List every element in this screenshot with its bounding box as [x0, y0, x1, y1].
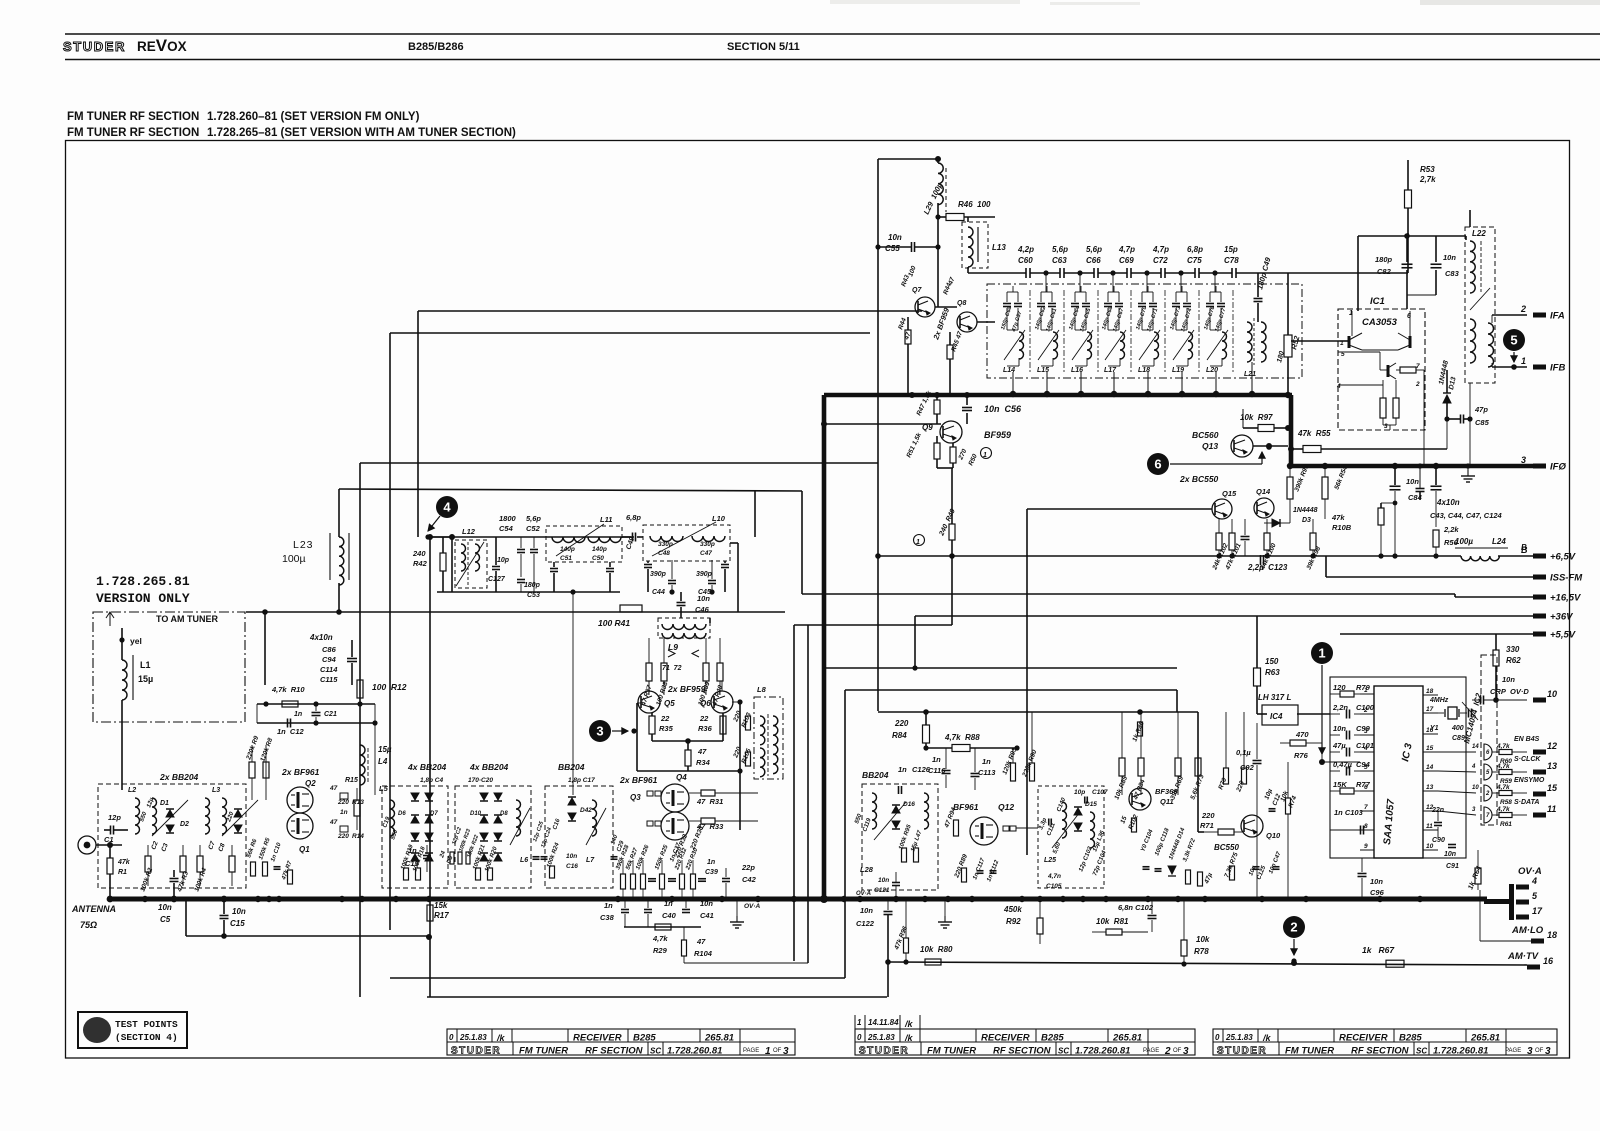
- svg-text:47k: 47k: [1331, 513, 1345, 522]
- svg-text:550: 550: [390, 829, 399, 841]
- svg-text:Q13: Q13: [1202, 441, 1218, 451]
- svg-text:C43, C44, C47, C124: C43, C44, C47, C124: [1430, 511, 1503, 520]
- svg-text:D13: D13: [1448, 376, 1458, 390]
- svg-text:C72: C72: [1153, 256, 1168, 265]
- svg-text:R17: R17: [434, 911, 449, 920]
- svg-text:5,60: 5,60: [1052, 841, 1062, 855]
- svg-text:470: 470: [1295, 730, 1309, 739]
- svg-text:L13: L13: [992, 243, 1006, 252]
- svg-text:100: 100: [907, 265, 917, 278]
- svg-text:2x BC550: 2x BC550: [1179, 474, 1219, 484]
- svg-text:C49: C49: [625, 536, 636, 551]
- svg-text:3,3p: 3,3p: [1038, 817, 1048, 831]
- svg-text:330p: 330p: [700, 541, 715, 548]
- svg-text:15µ: 15µ: [138, 674, 153, 684]
- svg-text:R58: R58: [1500, 799, 1512, 806]
- svg-text:C127: C127: [488, 576, 506, 583]
- svg-text:FM TUNER: FM TUNER: [927, 1046, 976, 1057]
- svg-text:TEST POINTS: TEST POINTS: [115, 1019, 178, 1030]
- svg-text:AM·LO: AM·LO: [1511, 925, 1544, 936]
- svg-text:R63: R63: [1265, 668, 1280, 677]
- svg-text:R84: R84: [892, 731, 907, 740]
- svg-text:140p C65: 140p C65: [1079, 307, 1092, 333]
- svg-text:10k: 10k: [1279, 790, 1290, 803]
- svg-text:15p: 15p: [1224, 245, 1238, 254]
- svg-text:1n: 1n: [707, 859, 715, 866]
- svg-text:47 R94: 47 R94: [943, 806, 958, 829]
- svg-text:25.1.83: 25.1.83: [459, 1033, 487, 1042]
- svg-text:L21: L21: [1244, 371, 1256, 378]
- svg-text:D1: D1: [160, 800, 169, 807]
- svg-text:R34: R34: [696, 758, 711, 767]
- svg-text:L4: L4: [378, 757, 388, 766]
- svg-text:C85: C85: [1475, 418, 1490, 427]
- svg-text:C48: C48: [658, 550, 670, 557]
- svg-text:C121: C121: [874, 887, 890, 894]
- svg-text:C83: C83: [1445, 269, 1460, 278]
- svg-text:C63: C63: [1052, 256, 1067, 265]
- svg-text:R52: R52: [1289, 334, 1301, 350]
- svg-text:10k R85: 10k R85: [1113, 775, 1129, 801]
- svg-text:C1: C1: [104, 835, 114, 844]
- svg-text:/k: /k: [904, 1033, 914, 1043]
- svg-text:OV·A: OV·A: [856, 891, 871, 897]
- svg-text:18: 18: [1426, 688, 1434, 695]
- svg-text:1k R67: 1k R67: [1362, 945, 1395, 955]
- svg-text:140p: 140p: [592, 546, 607, 553]
- svg-text:2: 2: [1485, 791, 1490, 797]
- svg-text:SC: SC: [1058, 1047, 1069, 1056]
- svg-text:1N4448: 1N4448: [1293, 507, 1318, 514]
- svg-text:5,6p: 5,6p: [1052, 245, 1068, 254]
- svg-text:4,7k R88: 4,7k R88: [944, 733, 980, 742]
- svg-text:0: 0: [1215, 1033, 1220, 1042]
- svg-text:+36V: +36V: [1550, 612, 1573, 623]
- svg-text:L3: L3: [212, 787, 220, 794]
- svg-text:D16: D16: [903, 801, 915, 808]
- svg-text:C16: C16: [552, 818, 562, 831]
- svg-text:Q2: Q2: [305, 779, 316, 788]
- svg-text:R62: R62: [1506, 656, 1521, 665]
- svg-text:220: 220: [1235, 780, 1246, 794]
- svg-text:D7: D7: [430, 811, 438, 817]
- svg-text:1.728.260.81: 1.728.260.81: [667, 1046, 722, 1057]
- svg-text:14: 14: [1426, 764, 1434, 771]
- svg-text:2: 2: [1415, 381, 1420, 388]
- svg-text:15µ: 15µ: [378, 745, 392, 754]
- svg-text:ISS-FM: ISS-FM: [1550, 573, 1583, 584]
- svg-text:140p C71: 140p C71: [1146, 308, 1159, 333]
- svg-text:8: 8: [1364, 823, 1368, 830]
- svg-text:3: 3: [1183, 1046, 1189, 1057]
- svg-text:Q4: Q4: [676, 773, 687, 782]
- svg-text:10n: 10n: [232, 907, 246, 916]
- svg-text:R14: R14: [352, 833, 364, 840]
- svg-text:R46 100: R46 100: [958, 200, 991, 209]
- svg-text:0: 0: [857, 1033, 862, 1042]
- svg-text:7: 7: [1486, 813, 1490, 819]
- svg-text:IFB: IFB: [1550, 363, 1565, 374]
- svg-text:Q8: Q8: [957, 300, 966, 307]
- svg-text:22p: 22p: [741, 863, 755, 872]
- svg-text:C82: C82: [1377, 267, 1392, 276]
- svg-text:C115: C115: [320, 675, 338, 684]
- svg-text:2x BB204: 2x BB204: [159, 772, 199, 782]
- svg-text:150: 150: [1265, 657, 1279, 666]
- svg-text:C53: C53: [527, 592, 540, 599]
- svg-text:10k R97: 10k R97: [1240, 413, 1273, 422]
- svg-text:1.728.260.81: 1.728.260.81: [1433, 1046, 1488, 1057]
- svg-text:120k R8: 120k R8: [259, 737, 274, 763]
- svg-text:1n: 1n: [604, 901, 613, 910]
- svg-text:Q10: Q10: [1266, 831, 1281, 840]
- svg-text:4MHz: 4MHz: [1429, 697, 1449, 704]
- svg-text:(SECTION 4): (SECTION 4): [115, 1032, 178, 1043]
- svg-text:10k R80: 10k R80: [920, 945, 953, 954]
- svg-text:Q7: Q7: [912, 287, 922, 294]
- svg-text:6: 6: [1486, 750, 1490, 756]
- svg-text:16: 16: [1543, 956, 1554, 966]
- svg-text:5: 5: [1510, 333, 1517, 348]
- svg-text:100µ C118: 100µ C118: [1154, 827, 1171, 857]
- svg-text:17: 17: [1426, 706, 1434, 713]
- svg-text:4,7n: 4,7n: [1047, 873, 1061, 880]
- svg-text:1,8p C17: 1,8p C17: [568, 777, 595, 784]
- svg-text:L12: L12: [462, 527, 476, 536]
- svg-text:100 R12: 100 R12: [372, 682, 407, 692]
- svg-text:R44: R44: [897, 317, 908, 331]
- svg-text:47µ: 47µ: [1203, 872, 1214, 886]
- svg-text:R35: R35: [659, 724, 674, 733]
- svg-text:VERSION ONLY: VERSION ONLY: [96, 591, 190, 606]
- svg-text:4: 4: [443, 500, 451, 515]
- svg-text:140p C70: 140p C70: [1135, 306, 1148, 331]
- svg-text:1: 1: [765, 1046, 771, 1057]
- svg-text:CRP OV·D: CRP OV·D: [1490, 687, 1529, 696]
- svg-text:STUDER: STUDER: [451, 1046, 501, 1057]
- svg-text:R45 47: R45 47: [950, 330, 964, 352]
- svg-text:22: 22: [699, 714, 709, 723]
- svg-text:R36: R36: [698, 724, 713, 733]
- svg-text:L17: L17: [1104, 367, 1117, 374]
- svg-text:10n: 10n: [1406, 477, 1419, 486]
- svg-text:1n C117: 1n C117: [972, 857, 986, 881]
- svg-text:47 R31: 47 R31: [696, 797, 723, 806]
- svg-text:B: B: [1521, 543, 1527, 552]
- svg-text:10µ: 10µ: [1263, 788, 1274, 801]
- svg-text:Y1: Y1: [1430, 725, 1439, 732]
- svg-text:11: 11: [1547, 804, 1556, 814]
- svg-text:C2: C2: [150, 840, 160, 851]
- svg-text:IFØ: IFØ: [1550, 462, 1566, 473]
- svg-text:C105: C105: [1046, 883, 1062, 890]
- svg-text:14.11.84: 14.11.84: [868, 1018, 899, 1027]
- svg-text:10n: 10n: [1443, 253, 1456, 262]
- svg-text:10k: 10k: [1196, 935, 1210, 944]
- svg-text:5,6p: 5,6p: [1086, 245, 1102, 254]
- svg-text:SC: SC: [1416, 1047, 1427, 1056]
- svg-text:10n: 10n: [1333, 724, 1346, 733]
- svg-text:R1: R1: [118, 869, 127, 876]
- svg-text:C41: C41: [700, 911, 714, 920]
- svg-text:R76: R76: [1294, 751, 1309, 760]
- svg-text:47µ: 47µ: [1332, 741, 1346, 750]
- svg-text:Q6: Q6: [700, 699, 711, 708]
- svg-text:140p C77: 140p C77: [1214, 307, 1227, 333]
- svg-text:3: 3: [1472, 807, 1476, 813]
- svg-text:220: 220: [337, 799, 349, 806]
- svg-text:47k R55: 47k R55: [1297, 429, 1331, 438]
- svg-text:17: 17: [1532, 906, 1543, 916]
- svg-text:C96: C96: [1370, 888, 1385, 897]
- svg-text:RECEIVER: RECEIVER: [981, 1033, 1030, 1044]
- svg-text:R102: R102: [1127, 813, 1139, 830]
- svg-text:OF: OF: [1173, 1048, 1182, 1054]
- svg-text:400: 400: [1451, 725, 1464, 732]
- svg-text:SAA 1057: SAA 1057: [1382, 798, 1397, 845]
- svg-text:R79: R79: [1356, 683, 1371, 692]
- svg-text:13: 13: [1547, 761, 1557, 771]
- svg-text:11: 11: [1426, 823, 1433, 830]
- svg-text:L2: L2: [128, 787, 136, 794]
- svg-text:47p: 47p: [1474, 405, 1488, 414]
- svg-text:2: 2: [1164, 1046, 1171, 1057]
- svg-text:6,8p: 6,8p: [1187, 245, 1203, 254]
- svg-text:C113: C113: [978, 768, 996, 777]
- svg-text:2,7k: 2,7k: [1419, 175, 1436, 184]
- svg-text:13: 13: [1426, 784, 1434, 791]
- svg-text:10: 10: [1472, 785, 1479, 791]
- svg-text:SECTION 5/11: SECTION 5/11: [727, 41, 800, 53]
- svg-text:L6: L6: [520, 857, 528, 864]
- svg-text:1: 1: [916, 539, 920, 546]
- svg-text:R77: R77: [1356, 780, 1371, 789]
- svg-text:9: 9: [1364, 843, 1368, 850]
- svg-text:C92: C92: [1240, 763, 1255, 772]
- svg-text:10n: 10n: [860, 906, 873, 915]
- svg-text:140p: 140p: [560, 546, 575, 553]
- svg-text:B285/B286: B285/B286: [408, 41, 464, 53]
- svg-text:C54: C54: [499, 524, 514, 533]
- svg-text:RF SECTION: RF SECTION: [1351, 1046, 1410, 1057]
- svg-text:15: 15: [1119, 815, 1128, 825]
- svg-text:265.81: 265.81: [1470, 1033, 1500, 1044]
- svg-text:R61: R61: [1500, 821, 1512, 828]
- svg-text:550: 550: [139, 811, 148, 823]
- svg-text:FM TUNER RF SECTION: FM TUNER RF SECTION: [67, 127, 199, 139]
- svg-text:TO AM TUNER: TO AM TUNER: [156, 614, 218, 624]
- svg-text:47: 47: [329, 819, 338, 826]
- svg-text:265.81: 265.81: [704, 1033, 734, 1044]
- svg-text:1: 1: [983, 452, 987, 459]
- svg-text:6,8n C102: 6,8n C102: [1118, 903, 1154, 912]
- svg-text:R29: R29: [653, 946, 668, 955]
- svg-text:BB204: BB204: [862, 770, 889, 780]
- svg-text:2: 2: [1290, 920, 1297, 935]
- svg-text:C3: C3: [160, 842, 170, 853]
- svg-text:/k: /k: [904, 1019, 914, 1029]
- svg-text:RECEIVER: RECEIVER: [1339, 1033, 1388, 1044]
- svg-text:BC560: BC560: [1192, 430, 1219, 440]
- svg-text:C101: C101: [1356, 741, 1374, 750]
- svg-text:10: 10: [1426, 843, 1434, 850]
- svg-text:4,7p: 4,7p: [1118, 245, 1135, 254]
- svg-text:D15: D15: [1085, 801, 1097, 808]
- svg-text:56k R54: 56k R54: [1333, 465, 1349, 491]
- svg-text:RF SECTION: RF SECTION: [585, 1046, 644, 1057]
- svg-text:10: 10: [1547, 689, 1557, 699]
- svg-text:1.728.265–81 (SET VERSION WITH: 1.728.265–81 (SET VERSION WITH AM TUNER …: [207, 127, 516, 139]
- svg-text:4: 4: [1471, 764, 1476, 770]
- svg-text:C51: C51: [560, 555, 572, 562]
- svg-text:3,3k R72: 3,3k R72: [1182, 837, 1197, 862]
- svg-text:BF366: BF366: [1155, 787, 1178, 796]
- svg-text:75Ω: 75Ω: [80, 920, 97, 930]
- svg-text:C94: C94: [1356, 760, 1371, 769]
- svg-text:47: 47: [329, 785, 338, 792]
- svg-text:C7: C7: [207, 840, 217, 851]
- svg-text:CA3053: CA3053: [1362, 317, 1398, 328]
- svg-text:220: 220: [1201, 811, 1215, 820]
- svg-text:265.81: 265.81: [1112, 1033, 1142, 1044]
- svg-text:1n C10: 1n C10: [270, 842, 283, 863]
- svg-text:220: 220: [337, 833, 349, 840]
- svg-text:L10: L10: [712, 514, 726, 523]
- svg-text:RECEIVER: RECEIVER: [573, 1033, 622, 1044]
- svg-text:C39: C39: [705, 869, 718, 876]
- svg-text:10p: 10p: [497, 557, 510, 564]
- svg-text:C114: C114: [320, 665, 338, 674]
- svg-text:1.728.260.81: 1.728.260.81: [1075, 1046, 1130, 1057]
- svg-text:D10: D10: [470, 811, 482, 817]
- svg-text:2x BF961: 2x BF961: [619, 775, 658, 785]
- svg-text:220: 220: [894, 719, 909, 728]
- svg-text:C44: C44: [652, 589, 665, 596]
- svg-text:22n: 22n: [1431, 807, 1444, 814]
- svg-text:FM TUNER: FM TUNER: [1285, 1046, 1334, 1057]
- svg-text:BB204: BB204: [558, 762, 585, 772]
- svg-text:C5: C5: [160, 915, 171, 924]
- svg-text:IC1: IC1: [1370, 296, 1385, 307]
- svg-text:140p C62: 140p C62: [1034, 306, 1047, 331]
- svg-text:1,8p C4: 1,8p C4: [420, 777, 444, 784]
- svg-text:140p C74: 140p C74: [1180, 308, 1193, 333]
- svg-text:4x10n: 4x10n: [1436, 498, 1460, 507]
- svg-text:10n C56: 10n C56: [984, 404, 1022, 414]
- svg-text:Q1: Q1: [299, 845, 310, 854]
- svg-text:15: 15: [1426, 745, 1434, 752]
- svg-text:180: 180: [1276, 350, 1286, 363]
- svg-text:OF: OF: [773, 1048, 782, 1054]
- svg-text:IC4: IC4: [1270, 712, 1283, 721]
- svg-text:47: 47: [696, 937, 706, 946]
- svg-text:1n: 1n: [664, 899, 673, 908]
- svg-text:25.1.83: 25.1.83: [1225, 1033, 1253, 1042]
- svg-text:390p: 390p: [650, 571, 667, 578]
- svg-text:D42: D42: [580, 807, 592, 814]
- svg-text:Q12: Q12: [998, 802, 1014, 812]
- svg-text:1: 1: [857, 1018, 862, 1027]
- svg-text:C69: C69: [1119, 256, 1134, 265]
- svg-text:1N4448: 1N4448: [1438, 360, 1450, 386]
- svg-text:C91: C91: [1446, 863, 1459, 870]
- svg-text:R15: R15: [345, 777, 358, 784]
- svg-text:BC550: BC550: [1214, 843, 1239, 852]
- svg-text:4: 4: [1531, 876, 1537, 886]
- svg-text:S·CLCK: S·CLCK: [1514, 756, 1541, 763]
- svg-text:R71: R71: [1200, 821, 1214, 830]
- svg-text:3: 3: [1545, 1046, 1551, 1057]
- svg-text:REVOX: REVOX: [137, 36, 187, 55]
- svg-text:1.728.260–81 (SET VERSION FM O: 1.728.260–81 (SET VERSION FM ONLY): [207, 111, 420, 123]
- svg-text:C94: C94: [322, 655, 337, 664]
- svg-text:15: 15: [1547, 783, 1558, 793]
- svg-text:1: 1: [1318, 646, 1325, 661]
- svg-text:STUDER: STUDER: [63, 39, 126, 54]
- svg-text:C55: C55: [885, 244, 900, 253]
- svg-text:L22: L22: [1472, 229, 1486, 238]
- svg-text:2,2µ C123: 2,2µ C123: [1247, 563, 1288, 572]
- svg-text:D8: D8: [500, 811, 508, 817]
- svg-text:10n: 10n: [697, 594, 710, 603]
- svg-text:IC 3: IC 3: [1400, 742, 1415, 763]
- svg-text:1n: 1n: [294, 711, 302, 718]
- svg-text:R42: R42: [413, 559, 428, 568]
- svg-text:1n: 1n: [932, 755, 941, 764]
- svg-text:R50: R50: [967, 453, 979, 467]
- svg-text:3: 3: [1527, 1046, 1533, 1057]
- svg-text:L23: L23: [293, 539, 314, 551]
- svg-text:C15: C15: [230, 919, 245, 928]
- svg-text:330: 330: [1506, 645, 1520, 654]
- svg-text:3: 3: [1521, 455, 1526, 465]
- svg-text:390p: 390p: [696, 571, 713, 578]
- svg-text:R53: R53: [1420, 165, 1435, 174]
- svg-text:OV·A: OV·A: [744, 903, 761, 910]
- svg-text:OV·A: OV·A: [1518, 866, 1542, 877]
- svg-text:C50: C50: [592, 555, 604, 562]
- svg-text:C119: C119: [862, 817, 873, 833]
- svg-text:10n: 10n: [158, 903, 172, 912]
- svg-text:Q15: Q15: [1222, 489, 1237, 498]
- svg-text:18: 18: [1547, 930, 1557, 940]
- svg-text:L1: L1: [140, 660, 151, 670]
- svg-text:220 R30: 220 R30: [689, 825, 705, 852]
- svg-text:+6,5V: +6,5V: [1550, 552, 1576, 563]
- svg-text:ENSYMO: ENSYMO: [1514, 777, 1545, 784]
- svg-text:L5: L5: [379, 784, 389, 793]
- svg-text:170·C20: 170·C20: [468, 777, 493, 784]
- svg-text:220k R9: 220k R9: [245, 735, 260, 762]
- svg-text:Q3: Q3: [630, 793, 641, 802]
- svg-text:B285: B285: [1041, 1033, 1064, 1044]
- svg-text:180p: 180p: [524, 582, 541, 589]
- svg-text:1.728.265.81: 1.728.265.81: [96, 574, 190, 589]
- svg-text:3: 3: [596, 724, 603, 739]
- svg-text:330p: 330p: [658, 541, 673, 548]
- svg-text:C47: C47: [700, 550, 712, 557]
- svg-text:7,2k R75: 7,2k R75: [1223, 851, 1240, 878]
- svg-text:72p C104: 72p C104: [1092, 849, 1108, 876]
- svg-text:C38: C38: [600, 913, 615, 922]
- svg-text:10p: 10p: [1074, 789, 1085, 796]
- svg-text:7: 7: [1364, 804, 1368, 811]
- svg-text:L11: L11: [600, 515, 612, 524]
- svg-text:C107: C107: [1092, 789, 1108, 796]
- svg-text:1: 1: [1521, 356, 1526, 366]
- svg-text:L25: L25: [1044, 857, 1056, 864]
- svg-text:4: 4: [1336, 383, 1341, 390]
